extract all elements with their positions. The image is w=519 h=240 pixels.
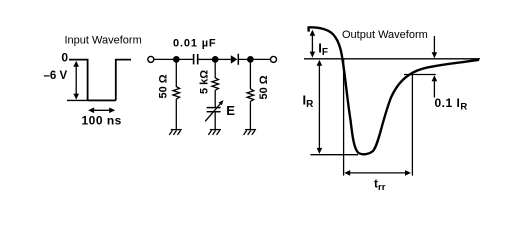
wire R2 to variable capacitor bbox=[214, 90, 216, 107]
wire node B down to R2 bbox=[214, 59, 216, 78]
peak reverse current level line bbox=[311, 154, 359, 156]
zero axis line bbox=[304, 58, 480, 60]
variable capacitor E plates bbox=[207, 108, 221, 112]
output terminal bbox=[271, 56, 277, 62]
ground branch 1 bbox=[169, 130, 182, 135]
svg-text:50 Ω: 50 Ω bbox=[158, 74, 170, 98]
variable capacitor arrow bbox=[205, 100, 223, 121]
svg-text:Output Waveform: Output Waveform bbox=[342, 29, 428, 41]
resistor R3 bbox=[247, 89, 254, 101]
resistor R2 bbox=[212, 78, 219, 90]
dimension arrow IR bbox=[317, 60, 323, 154]
wire node C down to R3 bbox=[249, 59, 251, 89]
svg-text:0: 0 bbox=[61, 51, 68, 65]
ground branch 2 bbox=[208, 130, 221, 135]
svg-text:Input Waveform: Input Waveform bbox=[65, 35, 142, 47]
output current curve bbox=[309, 27, 479, 154]
wire node C to output terminal bbox=[250, 58, 270, 60]
svg-text:0.01 µF: 0.01 µF bbox=[173, 38, 216, 50]
wire node B to diode bbox=[215, 58, 231, 60]
node C junction bbox=[247, 56, 254, 63]
0.1 IR level line bbox=[404, 74, 436, 76]
svg-text:50 Ω: 50 Ω bbox=[258, 75, 270, 99]
wire node A to capacitor bbox=[176, 58, 193, 60]
wire diode to node C bbox=[239, 58, 248, 60]
ground branch 3 bbox=[244, 130, 257, 135]
node B junction bbox=[212, 56, 219, 63]
wire node A down to R1 bbox=[175, 59, 177, 87]
-6V level line bbox=[67, 99, 116, 101]
dimension arrow trr bbox=[344, 170, 411, 176]
input waveform trace bbox=[69, 60, 131, 101]
svg-text:–6 V: –6 V bbox=[44, 70, 68, 82]
dimension arrow -6 V bbox=[73, 61, 79, 100]
wire capacitor to node B bbox=[199, 58, 214, 60]
resistor R1 bbox=[173, 87, 180, 99]
svg-text:E: E bbox=[226, 103, 235, 118]
diode D1 bbox=[231, 54, 239, 65]
wire R3 to ground bbox=[249, 101, 251, 129]
dimension arrow 100 ns bbox=[88, 108, 115, 114]
capacitor C1 bbox=[194, 54, 198, 64]
arrow up to 0.1 IR line bbox=[432, 75, 438, 97]
wire R1 to ground bbox=[175, 99, 177, 129]
node A junction bbox=[173, 56, 180, 63]
wire input terminal to node A bbox=[154, 58, 174, 60]
input terminal bbox=[148, 56, 154, 62]
trr right boundary line bbox=[411, 75, 413, 176]
svg-text:5 kΩ: 5 kΩ bbox=[198, 70, 210, 94]
wire variable capacitor to ground bbox=[214, 112, 216, 129]
trr left boundary line bbox=[343, 59, 345, 175]
dimension arrow IF bbox=[310, 30, 316, 58]
arrow down to zero line bbox=[432, 36, 438, 58]
svg-text:100 ns: 100 ns bbox=[82, 113, 122, 127]
